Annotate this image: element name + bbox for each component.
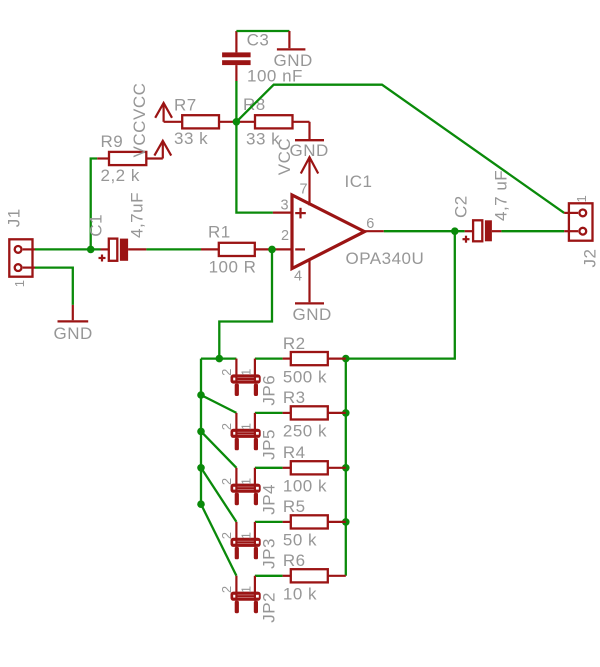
svg-text:JP5: JP5 (260, 429, 279, 460)
node right bus junction (342, 518, 350, 526)
jumper JP2 (231, 576, 261, 613)
svg-text:VCC: VCC (275, 138, 294, 175)
wire diagonal to JP3 pin 2 (201, 468, 236, 522)
minus marker (pin 2) (295, 248, 305, 250)
ground GND (C3) (277, 31, 306, 49)
jumper JP4 (231, 468, 261, 505)
svg-text:1: 1 (238, 369, 253, 376)
node ladder top junction (216, 355, 224, 363)
resistor R8 (236, 115, 309, 139)
svg-text:1: 1 (238, 478, 253, 485)
node right bus junction (342, 409, 350, 417)
resistor R5 (255, 515, 346, 528)
jumper JP3 (231, 522, 261, 559)
node R2 right junction (342, 355, 350, 363)
power VCC (pin 7) (301, 157, 318, 205)
svg-text:C1: C1 (87, 214, 106, 237)
svg-text:J1: J1 (5, 208, 24, 227)
svg-text:JP3: JP3 (260, 538, 279, 569)
svg-text:GND: GND (274, 51, 313, 70)
wire C1 to R1 (146, 248, 201, 250)
jumper JP5 (231, 413, 261, 450)
wire output down to ladder (346, 231, 455, 358)
svg-text:1: 1 (238, 423, 253, 430)
svg-text:2: 2 (219, 478, 234, 485)
svg-text:100 R: 100 R (209, 257, 257, 276)
wire J1 pin2 to ground (35, 268, 73, 305)
wire input node up to R9 (91, 159, 98, 250)
svg-text:7: 7 (300, 182, 308, 198)
wire output to C2 (384, 230, 465, 232)
wire left bus (200, 359, 202, 505)
wire C3 top to ground (236, 30, 289, 32)
svg-text:100 k: 100 k (283, 477, 327, 496)
svg-text:R6: R6 (283, 551, 306, 570)
pin 3 lead (273, 212, 292, 214)
svg-text:2: 2 (219, 423, 234, 430)
svg-text:IC1: IC1 (345, 172, 373, 191)
svg-text:JP2: JP2 (260, 592, 279, 623)
wire C2 to J2 (501, 230, 564, 232)
svg-text:GND: GND (293, 305, 332, 324)
svg-text:2,2 k: 2,2 k (101, 166, 140, 185)
resistor R1 (201, 243, 272, 256)
capacitor C2 (463, 220, 502, 242)
svg-text:2: 2 (219, 532, 234, 539)
jumper JP6 (231, 359, 261, 396)
resistor R3 (255, 406, 346, 419)
wire diagonal to JP2 pin 2 (201, 504, 236, 576)
svg-text:4: 4 (294, 268, 302, 284)
svg-text:GND: GND (54, 324, 93, 343)
svg-text:R3: R3 (283, 388, 306, 407)
node inverting input junction (268, 246, 276, 254)
svg-text:10 k: 10 k (283, 585, 317, 604)
capacitor C3 (222, 31, 251, 81)
svg-text:J2: J2 (581, 249, 600, 268)
capacitor C1 (99, 239, 147, 262)
wire diagonal to JP5 pin 2 (201, 395, 236, 413)
svg-text:2: 2 (281, 228, 289, 244)
resistor R4 (255, 461, 346, 474)
svg-text:R5: R5 (283, 497, 306, 516)
ground GND (R8) (295, 139, 324, 141)
power VCC (at R7) (155, 103, 172, 122)
svg-text:4,7uF: 4,7uF (128, 192, 147, 238)
svg-text:C3: C3 (247, 30, 270, 49)
svg-text:4,7 uF: 4,7 uF (492, 170, 511, 221)
wire right bus (345, 359, 347, 576)
power VCC (at R9) (154, 141, 171, 159)
svg-text:250 k: 250 k (283, 422, 327, 441)
svg-text:JP4: JP4 (260, 484, 279, 515)
svg-text:VCC: VCC (130, 120, 149, 157)
connector J2 (564, 203, 592, 240)
svg-text:1: 1 (238, 532, 253, 539)
node bias junction (233, 118, 241, 126)
pin 2 lead (272, 248, 292, 250)
resistor R7 (164, 115, 237, 128)
node left bus junction (197, 428, 205, 436)
svg-text:OPA340U: OPA340U (346, 249, 425, 268)
wire C3 bottom to bias node and pin 3 (236, 81, 273, 213)
ground GND (J1) (58, 305, 89, 322)
svg-text:3: 3 (281, 197, 289, 213)
svg-text:R4: R4 (283, 443, 306, 462)
svg-text:R1: R1 (208, 223, 231, 242)
node input junction (87, 246, 95, 254)
node output junction (451, 227, 459, 235)
resistor R9 (97, 152, 163, 165)
resistor R2 (255, 352, 346, 365)
wire diagonal to JP4 pin 2 (201, 431, 236, 467)
svg-text:R9: R9 (101, 132, 124, 151)
plus marker (pin 3) (295, 208, 306, 219)
svg-text:50 k: 50 k (283, 531, 317, 550)
node left bus junction (197, 464, 205, 472)
node right bus junction (342, 464, 350, 472)
svg-text:1: 1 (238, 586, 253, 593)
pin 4 lead and ground (295, 260, 324, 304)
pin 6 output lead (365, 230, 384, 232)
svg-text:2: 2 (219, 586, 234, 593)
wire inverting node down to ladder (219, 249, 272, 358)
svg-text:500 k: 500 k (283, 367, 327, 386)
node left bus junction (197, 500, 205, 508)
svg-text:C2: C2 (452, 195, 471, 218)
op-amp IC1 OPA340U (292, 195, 365, 269)
svg-text:1: 1 (12, 280, 27, 287)
svg-text:1: 1 (574, 195, 589, 202)
svg-text:R7: R7 (174, 96, 197, 115)
svg-text:VCC: VCC (130, 83, 149, 120)
wire J1 pin1 to C1 (35, 248, 101, 250)
svg-text:2: 2 (219, 369, 234, 376)
wire ladder top row (201, 357, 236, 359)
svg-text:33 k: 33 k (174, 129, 208, 148)
connector J1 (9, 239, 35, 276)
svg-text:JP6: JP6 (260, 375, 279, 406)
wire bias node to output line (diagonal) (236, 85, 564, 213)
svg-text:R2: R2 (283, 334, 306, 353)
svg-text:6: 6 (366, 216, 374, 232)
resistor R6 (255, 569, 346, 582)
node left bus junction (197, 391, 205, 399)
